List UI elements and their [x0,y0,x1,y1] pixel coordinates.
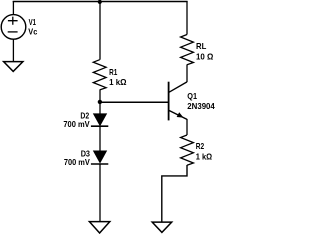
node top junction [98,0,102,4]
diode D3 [93,151,106,163]
diode D2 [93,114,106,126]
resistor R2 [181,135,194,165]
transistor Q1 emitter [169,110,187,119]
wire R2 to ground jog [162,165,187,222]
voltage source V1 [1,15,26,40]
wire emitter to R2 [186,119,188,135]
wire base [100,101,169,103]
wire V1 bottom lead [12,39,14,61]
resistor R1 [93,60,106,90]
wire R1 top lead [99,1,101,60]
ground under diodes [89,222,109,233]
transistor Q1 base bar [168,82,170,121]
svg-text:1 kΩ: 1 kΩ [196,151,213,161]
svg-text:Q1: Q1 [187,91,197,101]
wire D3 to ground [99,164,101,222]
svg-text:RL: RL [196,41,206,51]
svg-text:10 Ω: 10 Ω [196,51,214,61]
transistor Q1 collector [169,82,187,92]
wire RL bottom lead [186,65,188,83]
wire RL top lead [186,1,188,35]
svg-text:1 kΩ: 1 kΩ [109,77,127,87]
svg-text:2N3904: 2N3904 [187,101,215,111]
svg-text:700 mV: 700 mV [63,119,90,129]
wire R1 bottom lead [99,90,101,102]
svg-text:700 mV: 700 mV [64,157,90,167]
wire top rail [13,1,188,3]
svg-text:Vc: Vc [28,27,37,37]
svg-text:R2: R2 [196,141,205,151]
svg-text:R1: R1 [109,67,117,77]
ground under V1 [4,62,23,72]
wire V1 top lead [12,1,14,15]
ground bottom right [152,222,172,232]
wire junction to D2 [99,102,101,114]
resistor RL [181,35,194,65]
node base junction [98,100,102,104]
wire D2 to D3 [99,126,101,151]
svg-text:V1: V1 [29,17,37,27]
